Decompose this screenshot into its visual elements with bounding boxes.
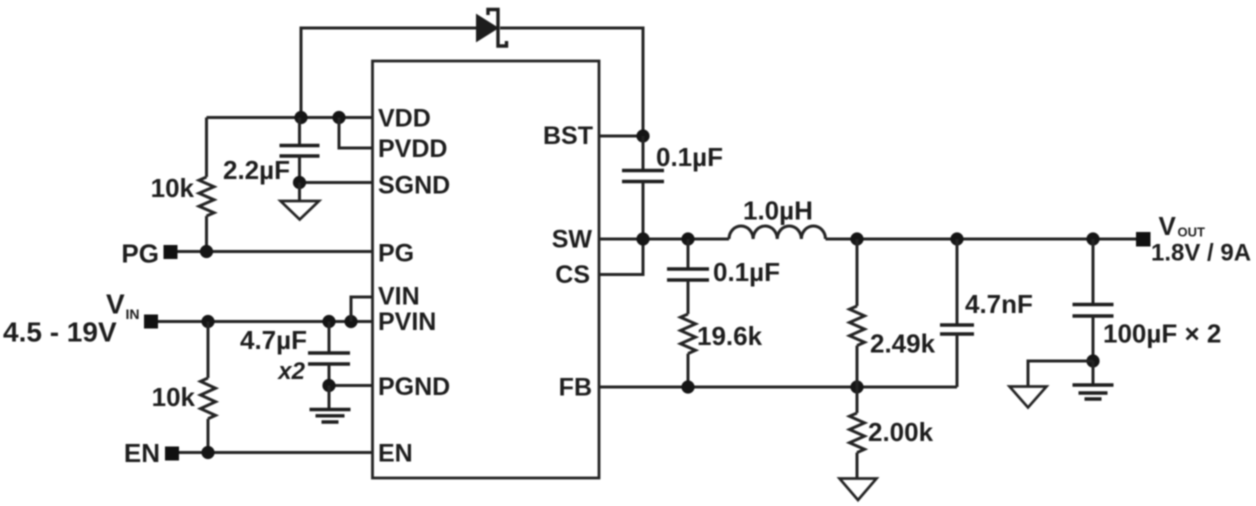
capacitor 0.1uF (CS filter) [687, 239, 690, 269]
svg-text:10k: 10k [152, 382, 196, 412]
svg-text:SW: SW [552, 226, 593, 254]
capacitor 100uF x 2 [1092, 239, 1095, 304]
svg-text:OUT: OUT [1178, 225, 1206, 240]
svg-text:19.6k: 19.6k [697, 321, 763, 351]
resistor 2.00k [856, 387, 859, 413]
svg-text:2.49k: 2.49k [870, 329, 936, 359]
wire VIN pin stub [351, 297, 373, 322]
wire to left ground [1028, 361, 1093, 387]
svg-text:PG: PG [378, 240, 414, 268]
inductor L1 1.0uH [729, 226, 825, 239]
terminal VIN [144, 315, 158, 329]
node PG junction [200, 245, 213, 258]
svg-text:4.7µF: 4.7µF [240, 325, 307, 355]
ground SGND (open triangle) [298, 183, 301, 202]
svg-text:4.7nF: 4.7nF [965, 289, 1033, 319]
wire SGND [300, 181, 373, 184]
wire PGND [329, 384, 373, 387]
node SW/100uF junction [1086, 232, 1099, 245]
resistor 10k (PG pull-up) [205, 118, 208, 178]
wire CS stub [599, 239, 643, 275]
ground output (open triangle) [1010, 387, 1047, 408]
terminal EN [165, 447, 179, 461]
node EN junction [201, 446, 214, 459]
wire BST [599, 135, 643, 138]
node VIN/cap junction [322, 315, 335, 328]
svg-text:10k: 10k [151, 173, 195, 203]
node FB/19.6k junction [681, 380, 694, 393]
node SW/4.7nF junction [950, 232, 963, 245]
node VIN/10k junction [201, 315, 214, 328]
terminal PG [164, 245, 178, 259]
wire FB rail [599, 386, 957, 389]
svg-text:VDD: VDD [378, 105, 431, 133]
svg-text:VIN: VIN [378, 283, 420, 311]
node PVDD junction [332, 111, 345, 124]
wire bootstrap top rail [301, 28, 477, 118]
svg-text:PVDD: PVDD [378, 135, 447, 163]
node SW/2.49k junction [850, 232, 863, 245]
svg-text:2.2µF: 2.2µF [223, 155, 290, 185]
svg-text:x2: x2 [276, 358, 305, 385]
resistor 10k (EN pull-down) [207, 322, 210, 379]
wire VIN rail [158, 320, 373, 323]
node VDD junction [294, 111, 307, 124]
wire PVDD step [339, 118, 373, 149]
node output ground junction [1086, 354, 1099, 367]
resistor 2.49k [856, 239, 859, 306]
svg-text:V: V [1159, 211, 1177, 241]
svg-text:EN: EN [124, 438, 160, 468]
capacitor 2.2uF [298, 118, 301, 146]
op-amp U1 IC body [373, 61, 600, 478]
svg-text:1.0µH: 1.0µH [743, 196, 813, 226]
capacitor 4.7uF x2 [328, 322, 331, 353]
node BST junction [636, 129, 649, 142]
ground PGND (earth bars) [328, 386, 331, 410]
node SGND junction [293, 176, 306, 189]
wire SW rail [599, 238, 729, 241]
resistor 19.6k [681, 314, 696, 354]
node FB/divider junction [850, 380, 863, 393]
node SW/CS junction [636, 232, 649, 245]
svg-text:FB: FB [559, 374, 592, 402]
svg-text:4.5 - 19V: 4.5 - 19V [3, 317, 117, 348]
wire VDD rail [207, 116, 373, 119]
node SW/0.1uF junction [681, 232, 694, 245]
svg-text:V: V [106, 289, 125, 320]
ground 2.00k (open triangle) [840, 479, 877, 501]
svg-text:IN: IN [126, 306, 140, 322]
wire EN [179, 451, 373, 454]
svg-text:PGND: PGND [378, 373, 450, 401]
svg-text:SGND: SGND [378, 172, 450, 200]
svg-text:CS: CS [555, 261, 590, 289]
ground output (earth bars) [1092, 361, 1095, 385]
diode D1 schottky [477, 15, 499, 42]
svg-text:0.1µF: 0.1µF [656, 142, 723, 172]
svg-text:PG: PG [121, 239, 159, 269]
capacitor 4.7nF [956, 239, 959, 325]
svg-text:PVIN: PVIN [378, 308, 436, 336]
svg-text:1.8V / 9A: 1.8V / 9A [1151, 240, 1251, 267]
svg-text:2.00k: 2.00k [868, 417, 934, 447]
svg-text:100µF × 2: 100µF × 2 [1103, 319, 1221, 349]
node VIN stub junction [344, 315, 357, 328]
terminal VOUT [1136, 232, 1151, 247]
capacitor 0.1uF (BST) [642, 136, 645, 170]
svg-text:BST: BST [543, 122, 593, 150]
wire PG [178, 250, 373, 253]
svg-text:EN: EN [378, 440, 413, 468]
node PGND junction [322, 379, 335, 392]
svg-text:0.1µF: 0.1µF [713, 257, 780, 287]
